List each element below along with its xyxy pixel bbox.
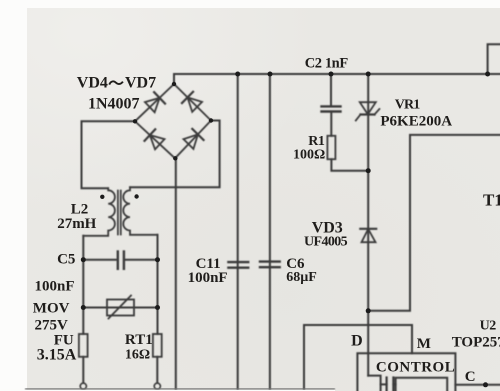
wire: bridge diamond sides	[135, 84, 211, 158]
node: MOV right junction	[155, 305, 160, 310]
diode VD5 (bridge top-right)	[182, 92, 203, 113]
node: rail/C2 junction	[329, 72, 334, 77]
node: C5 right junction	[155, 257, 160, 262]
node: L2 left phase dot	[100, 195, 104, 199]
IC U2 outline box	[304, 325, 412, 391]
terminal: AC input left	[80, 383, 86, 389]
wire: branch to T1 primary top	[488, 44, 500, 74]
wire: C11 branch	[237, 74, 239, 391]
wire: R1 bottom to VR1 line	[331, 159, 368, 171]
svg-text:VR1: VR1	[395, 98, 421, 113]
node: rail/VR1 junction	[366, 72, 371, 77]
wire: C pin to right	[455, 384, 500, 386]
wire: main DC+ rail	[174, 73, 500, 75]
node: MOV left junction	[81, 305, 86, 310]
svg-text:RT1: RT1	[125, 332, 153, 348]
svg-text:TOP257: TOP257	[452, 335, 500, 351]
node: C pin junction	[483, 382, 488, 387]
node: rail/C11 junction	[235, 72, 240, 77]
svg-text:275V: 275V	[35, 318, 69, 334]
thermistor RT1	[153, 334, 162, 357]
inductor L2 right winding	[123, 187, 157, 235]
svg-text:C2 1nF: C2 1nF	[305, 56, 349, 72]
diode VD3	[360, 229, 376, 242]
svg-text:16Ω: 16Ω	[125, 348, 150, 363]
wire: right AC branch down	[157, 235, 159, 334]
diode VD4 (bridge top-left)	[144, 92, 165, 113]
terminal: AC input right	[154, 383, 160, 389]
svg-text:3.15A: 3.15A	[37, 347, 77, 364]
wire: right AC vertex to choke right winding top	[130, 121, 220, 188]
svg-text:1N4007: 1N4007	[88, 96, 140, 113]
svg-text:C: C	[465, 369, 476, 385]
wire: drain line into U2 with step	[368, 376, 380, 391]
svg-text:27mH: 27mH	[57, 216, 96, 232]
wire: fuse to terminal	[82, 357, 84, 383]
capacitor C2 plates	[322, 105, 341, 107]
svg-text:P6KE200A: P6KE200A	[380, 114, 452, 130]
U2 CONTROL block box	[357, 353, 455, 391]
svg-text:CONTROL: CONTROL	[376, 360, 455, 376]
svg-text:M: M	[417, 336, 431, 352]
wire: snubber return from T1 to drain node	[368, 135, 500, 311]
node: rail/C6 junction	[268, 72, 273, 77]
wire: RT1 to terminal	[156, 357, 158, 383]
node: C5 left junction	[81, 257, 86, 262]
diode VD7 (bridge bottom-right)	[183, 129, 204, 150]
varistor MOV	[83, 307, 157, 309]
wire: left AC vertex to choke left winding top	[82, 121, 136, 188]
node: bridge right vertex	[209, 118, 213, 122]
svg-text:T1: T1	[483, 191, 500, 210]
node: L2 right phase dot	[134, 194, 138, 198]
svg-text:U2: U2	[480, 319, 497, 334]
resistor R1	[327, 136, 335, 159]
wire: bridge top vertex to rail	[173, 74, 175, 84]
capacitor C11 plates	[228, 261, 248, 263]
fuse FU	[79, 334, 88, 357]
svg-text:VD4: VD4	[77, 75, 108, 92]
node: bridge top vertex	[172, 82, 176, 86]
node: bridge left vertex	[133, 119, 137, 123]
wire: bridge bottom vertex DC- rail down	[175, 158, 177, 391]
node: rail/T1 junction	[485, 72, 490, 77]
svg-text:D: D	[351, 333, 363, 350]
wire: C2/R1 branch from rail	[330, 74, 332, 106]
svg-text:100Ω: 100Ω	[293, 148, 325, 163]
svg-text:100nF: 100nF	[35, 279, 75, 295]
wire: C2 to R1	[330, 112, 332, 136]
TVS diode VR1	[356, 102, 380, 120]
svg-text:UF4005: UF4005	[304, 235, 348, 250]
U2 inner block box	[396, 378, 448, 391]
scan page edge at bottom	[25, 388, 335, 390]
node: drain junction	[366, 308, 371, 313]
svg-text:68µF: 68µF	[286, 270, 317, 285]
inductor L2 core	[117, 191, 119, 235]
svg-text:C5: C5	[57, 252, 75, 268]
node: bridge bottom vertex	[173, 156, 177, 160]
capacitor C6 plates	[260, 260, 280, 262]
capacitor inside U2	[386, 378, 388, 391]
inductor L2 left winding	[83, 188, 115, 236]
wire: C6 branch	[269, 74, 271, 391]
capacitor C5 (X cap)	[83, 259, 116, 261]
svg-text:100nF: 100nF	[188, 270, 228, 286]
svg-text:MOV: MOV	[33, 301, 70, 317]
wire: left AC branch down	[82, 236, 84, 334]
svg-text:VD7: VD7	[125, 75, 156, 92]
diode VD6 (bridge bottom-left)	[144, 129, 165, 150]
wire: VR1/VD3 vertical line	[367, 74, 369, 376]
node: R1/VR1 junction	[366, 168, 371, 173]
